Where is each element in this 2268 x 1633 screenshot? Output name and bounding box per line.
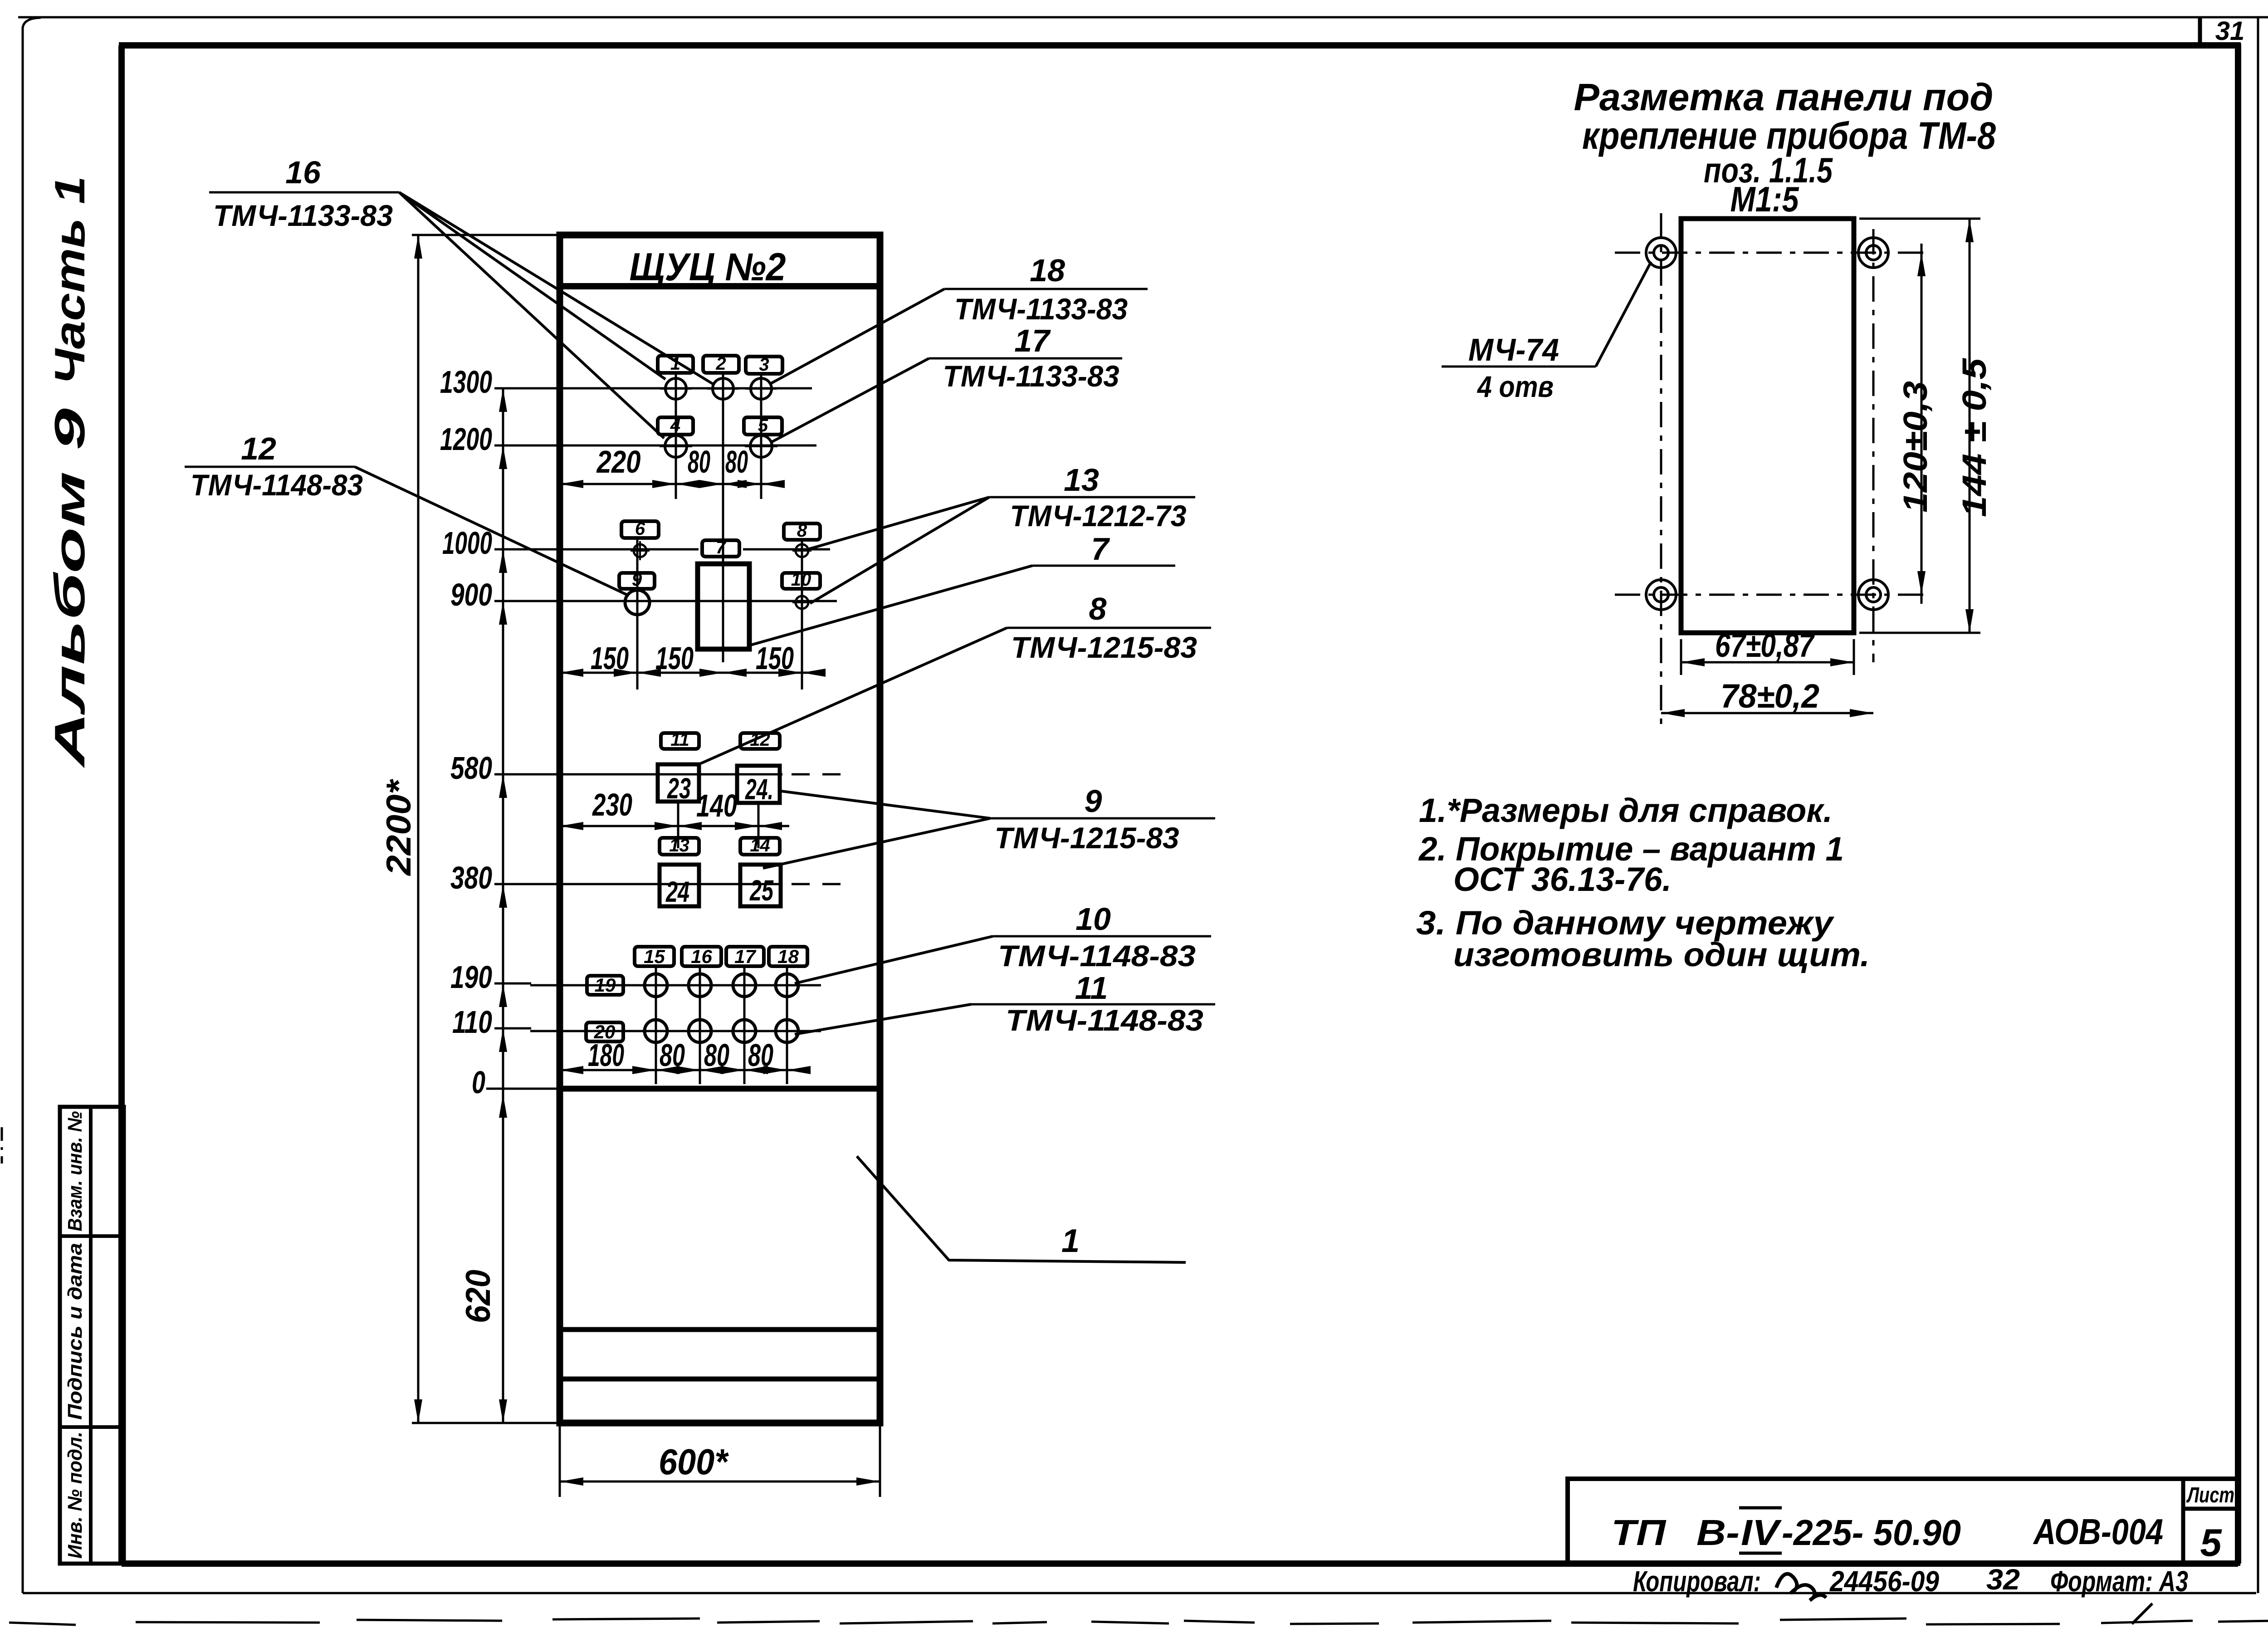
leader 8 to square 23 — [701, 628, 1007, 763]
leader 13 to circle 10 — [810, 497, 989, 603]
svg-text:1200: 1200 — [440, 421, 492, 457]
svg-text:12: 12 — [241, 431, 276, 466]
lamp box 4 — [658, 417, 693, 435]
svg-text:М1:5: М1:5 — [1730, 179, 1799, 219]
svg-text:0: 0 — [472, 1065, 485, 1100]
svg-text:900: 900 — [450, 577, 492, 612]
svg-text:17: 17 — [734, 946, 756, 967]
leader 10 to circle 18 row 190 — [795, 936, 993, 983]
sensor circle 10 — [796, 596, 808, 609]
svg-text:2200*: 2200* — [380, 778, 418, 876]
dimension 150/150/150 — [560, 672, 812, 674]
svg-text:150: 150 — [756, 640, 794, 676]
level line 1200 — [494, 445, 531, 447]
leader МЧ-74 to hole — [1596, 262, 1651, 367]
svg-text:ТП: ТП — [1611, 1512, 1667, 1553]
svg-text:5: 5 — [758, 416, 768, 435]
box 12 — [740, 733, 780, 749]
svg-text:IV: IV — [1741, 1512, 1782, 1553]
box 6 — [621, 521, 659, 538]
svg-text:Подпись и дата: Подпись и дата — [64, 1243, 86, 1420]
svg-text:180: 180 — [588, 1037, 624, 1073]
svg-text:31: 31 — [2215, 16, 2245, 46]
panel plinth line 1 — [560, 1327, 880, 1332]
svg-text:80: 80 — [660, 1037, 685, 1073]
svg-text:4 отв: 4 отв — [1476, 370, 1554, 403]
svg-text:19: 19 — [595, 974, 616, 996]
svg-text:80: 80 — [688, 444, 710, 479]
dimension 230/140 — [560, 825, 789, 827]
svg-text:1000: 1000 — [442, 525, 492, 561]
switch square 24 — [737, 766, 780, 803]
dimension 180/80/80/80 — [560, 1069, 798, 1071]
button circle 15 row 190 — [645, 974, 667, 997]
svg-text:11: 11 — [1075, 970, 1108, 1006]
svg-text:5: 5 — [2200, 1521, 2222, 1565]
button circle 16 row 110 — [689, 1020, 711, 1042]
svg-text:580: 580 — [450, 750, 492, 786]
switch square 23 — [658, 764, 699, 802]
box 20 — [586, 1022, 623, 1041]
svg-text:144 ± 0,5: 144 ± 0,5 — [1955, 357, 1993, 517]
svg-text:ТМЧ-1148-83: ТМЧ-1148-83 — [998, 939, 1196, 973]
level line 580 — [494, 773, 531, 776]
signal lamp circle 1 — [665, 378, 686, 399]
svg-text:24456-09: 24456-09 — [1829, 1565, 1939, 1598]
level 1200 line across panel — [530, 445, 816, 447]
dimension 120±0,3 — [1921, 244, 1923, 604]
lamp box 2 — [703, 356, 739, 373]
panel header separator — [560, 283, 880, 289]
svg-text:230: 230 — [591, 787, 632, 822]
svg-text:120±0,3: 120±0,3 — [1897, 381, 1934, 513]
signal lamp circle 4 — [665, 435, 687, 457]
instrument rectangle element 7 — [698, 564, 749, 649]
level line 380 — [494, 883, 531, 885]
svg-text:150: 150 — [591, 640, 629, 676]
svg-text:10: 10 — [1075, 901, 1111, 937]
svg-text:23: 23 — [667, 772, 691, 805]
svg-text:Взам. инв. №: Взам. инв. № — [64, 1111, 86, 1232]
chain dimension vertical — [502, 388, 504, 1423]
svg-text:9: 9 — [1085, 783, 1102, 819]
svg-text:Инв. № подл.: Инв. № подл. — [64, 1432, 86, 1559]
svg-text:7: 7 — [1091, 531, 1110, 567]
svg-text:110: 110 — [452, 1004, 492, 1040]
level 900 line across panel — [530, 600, 837, 602]
centerline circle 1/4 — [675, 373, 677, 499]
svg-text:ТМЧ-1215-83: ТМЧ-1215-83 — [1011, 631, 1197, 664]
svg-text:14: 14 — [750, 836, 770, 856]
svg-text:ТМЧ-1133-83: ТМЧ-1133-83 — [943, 359, 1119, 393]
registration mark left edge — [1, 1127, 3, 1164]
svg-text:220: 220 — [596, 444, 641, 479]
svg-text:1300: 1300 — [440, 364, 492, 400]
level line 1000 — [494, 548, 531, 551]
level 110 line across panel — [530, 1030, 821, 1032]
svg-text:3: 3 — [759, 355, 769, 375]
svg-text:МЧ-74: МЧ-74 — [1468, 332, 1559, 367]
centerline horizontal bottom — [1615, 594, 1923, 596]
box 16 — [682, 947, 721, 966]
svg-text:78±0,2: 78±0,2 — [1721, 677, 1819, 715]
leader 16 to circle 2 — [399, 192, 713, 384]
svg-text:13: 13 — [1064, 462, 1099, 498]
svg-text:Копировал:: Копировал: — [1633, 1565, 1761, 1598]
level 1000 line across panel — [530, 548, 699, 551]
lamp box 5 — [744, 417, 782, 435]
sheet number box 31 — [2198, 17, 2202, 45]
svg-text:67±0,87: 67±0,87 — [1715, 626, 1815, 664]
svg-text:16: 16 — [691, 946, 712, 967]
outer thin border — [22, 27, 24, 1593]
svg-text:18: 18 — [777, 946, 799, 967]
lamp box 1 — [658, 356, 693, 373]
svg-text:2: 2 — [715, 354, 726, 374]
svg-text:6: 6 — [635, 519, 645, 539]
level 1300 line across panel — [530, 387, 812, 390]
centerline vertical right — [1872, 229, 1875, 662]
svg-text:ТМЧ-1215-83: ТМЧ-1215-83 — [995, 821, 1179, 855]
box 8 — [784, 523, 820, 540]
dimension 220/80/80 — [560, 483, 780, 485]
svg-text:24: 24 — [665, 875, 689, 908]
level 190 line across panel — [530, 984, 821, 987]
leader 12 to circle 9 — [355, 467, 628, 595]
level line 110 — [494, 1027, 531, 1030]
torn paper edge bottom — [9, 1623, 76, 1625]
leader 17 to circle 5 — [771, 358, 929, 442]
svg-text:Часть 1: Часть 1 — [46, 176, 93, 385]
panel zero level line — [560, 1086, 880, 1092]
signal lamp circle 2 — [713, 378, 733, 399]
panel outline (element 1) — [560, 235, 880, 1423]
leader 11 to circle 18 row 110 — [795, 1004, 971, 1034]
svg-text:АОВ-004: АОВ-004 — [2033, 1511, 2163, 1552]
box 19 — [587, 976, 623, 995]
svg-text:8: 8 — [797, 521, 807, 541]
stamp table frame — [60, 1107, 124, 1564]
button circle 18 row 190 — [776, 974, 798, 997]
svg-text:150: 150 — [655, 640, 694, 676]
title block frame — [1568, 1479, 2238, 1564]
level 380 line across panel — [530, 883, 782, 885]
svg-text:7: 7 — [716, 538, 727, 557]
leader 13 to circle 8 — [809, 497, 989, 549]
level 580 line across panel — [530, 773, 782, 776]
hole bottom-left — [1646, 580, 1676, 610]
level line 900 — [494, 600, 531, 602]
svg-text:620: 620 — [459, 1270, 498, 1323]
svg-text:Разметка панели под: Разметка панели под — [1574, 76, 1994, 118]
svg-text:140: 140 — [696, 788, 737, 823]
svg-text:24.: 24. — [745, 773, 773, 806]
leader 9 to square 25 — [763, 818, 990, 868]
box 7 — [702, 540, 739, 557]
box 17 — [726, 947, 764, 966]
signal lamp circle 5 — [750, 435, 772, 457]
button circle 16 row 190 — [689, 974, 711, 997]
svg-text:ТМЧ-1212-73: ТМЧ-1212-73 — [1010, 499, 1187, 533]
TM-8 cutout rectangle — [1681, 219, 1854, 633]
leader 1 to panel front — [857, 1156, 1186, 1262]
svg-text:80: 80 — [725, 444, 748, 479]
dimension line 2200 overall — [417, 235, 420, 1423]
centerline circle 3/5 — [760, 374, 763, 499]
centerline circle 2 — [722, 373, 724, 662]
dimension 78±0,2 — [1661, 712, 1873, 714]
dimension 67±0,87 — [1680, 639, 1682, 675]
svg-text:32: 32 — [1986, 1563, 2020, 1596]
box 9 — [619, 573, 655, 589]
svg-text:ТМЧ-1133-83: ТМЧ-1133-83 — [954, 292, 1128, 326]
svg-text:Альбом 9: Альбом 9 — [46, 408, 93, 768]
leader 18 to circle 3 — [771, 289, 944, 383]
svg-text:600*: 600* — [659, 1442, 729, 1482]
sensor circle 8 — [796, 544, 808, 557]
centerline horizontal top — [1615, 252, 1923, 254]
hole top-right — [1858, 238, 1888, 268]
svg-text:Лист: Лист — [2186, 1483, 2234, 1507]
box 18 — [769, 947, 807, 966]
svg-text:11: 11 — [670, 730, 689, 750]
signal lamp circle 3 — [751, 378, 772, 399]
button circle 18 row 110 — [776, 1020, 798, 1042]
svg-text:190: 190 — [450, 959, 492, 995]
box 11 — [661, 733, 699, 749]
level line 190 — [494, 983, 531, 985]
hole top-left МЧ-74 — [1646, 238, 1676, 268]
button circle 17 row 110 — [733, 1020, 756, 1042]
svg-text:80: 80 — [748, 1037, 773, 1073]
switch square 24b — [660, 865, 699, 906]
switch square 25 — [740, 865, 781, 906]
svg-text:8: 8 — [1089, 591, 1107, 626]
svg-text:изготовить один щит.: изготовить один щит. — [1453, 936, 1870, 973]
svg-text:Формат: А3: Формат: А3 — [2050, 1565, 2188, 1598]
sensor circle 6 — [634, 544, 646, 557]
leader 9 to square 24 — [781, 791, 990, 818]
centerline vertical left — [1660, 213, 1662, 726]
button circle 17 row 190 — [733, 974, 756, 997]
svg-text:15: 15 — [644, 946, 665, 967]
device circle 9 — [625, 590, 650, 615]
inner thick border frame — [119, 42, 2241, 49]
svg-text:-225- 50.90: -225- 50.90 — [1782, 1512, 1961, 1553]
lamp box 3 — [746, 357, 782, 374]
level line 1300 — [494, 387, 531, 390]
svg-text:В-: В- — [1696, 1512, 1740, 1553]
box 15 — [635, 947, 674, 966]
svg-text:16: 16 — [285, 155, 321, 190]
panel plinth line 2 — [560, 1377, 880, 1382]
dimension 144±0,5 — [1969, 219, 1971, 633]
svg-text:13: 13 — [669, 836, 689, 856]
box 10 — [782, 573, 820, 589]
leader 16 to circle 1 — [399, 192, 665, 379]
svg-text:18: 18 — [1030, 253, 1065, 288]
svg-text:80: 80 — [704, 1037, 729, 1073]
signature — [1776, 1574, 1826, 1600]
svg-text:ТМЧ-1148-83: ТМЧ-1148-83 — [191, 468, 363, 502]
svg-text:25: 25 — [749, 874, 774, 907]
level line 0 — [486, 1088, 560, 1090]
svg-text:1: 1 — [1061, 1223, 1080, 1259]
box 14 — [740, 838, 780, 855]
leader 7 to rectangle 7 — [751, 566, 1032, 645]
svg-text:ЩУЦ №2: ЩУЦ №2 — [630, 245, 786, 289]
svg-text:ТМЧ-1148-83: ТМЧ-1148-83 — [1006, 1003, 1203, 1037]
svg-text:ОСТ 36.13-76.: ОСТ 36.13-76. — [1453, 861, 1672, 898]
hole bottom-right — [1858, 580, 1888, 610]
dimension 600 bottom — [559, 1423, 561, 1497]
leader 16 to circle 4 — [399, 192, 664, 438]
svg-text:ТМЧ-1133-83: ТМЧ-1133-83 — [213, 199, 393, 232]
svg-text:380: 380 — [450, 860, 492, 895]
svg-text:17: 17 — [1014, 323, 1051, 358]
button circle 15 row 110 — [645, 1020, 667, 1042]
box 13 — [660, 838, 699, 855]
svg-text:1.*Размеры для справок.: 1.*Размеры для справок. — [1419, 792, 1833, 829]
